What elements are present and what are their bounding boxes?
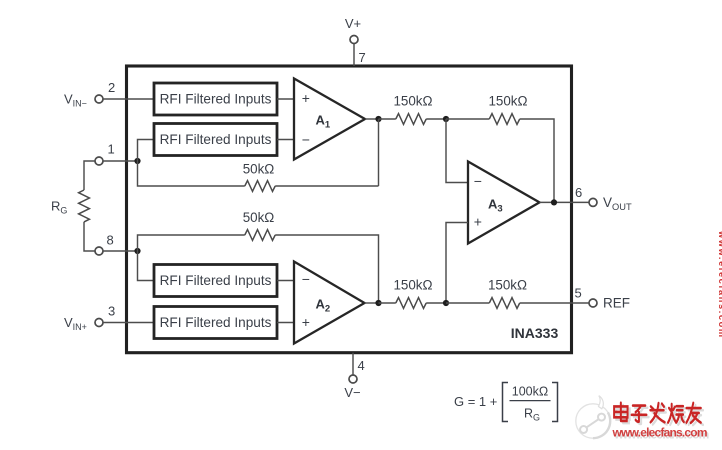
wire N1 to 150k R1 [379,118,396,120]
wire A3 plus to node N4 [446,223,468,304]
node G2 junction [134,248,140,254]
svg-text:6: 6 [575,185,582,200]
svg-text:8: 8 [107,233,114,248]
svg-text:5: 5 [575,286,582,301]
wire N2 to 150k R3 [379,302,396,304]
pin 2 terminal [95,95,103,103]
wire R4 to pin5 [520,302,590,304]
wire RFI3 to A2 minus [277,280,294,282]
resistor 150k R2 [489,114,519,125]
wire node G1 to RFI filter 2 input [138,140,156,162]
wire A3 output [540,201,590,203]
wire RFI2 to A1 minus [277,139,294,141]
svg-text:REF: REF [603,296,630,311]
wire pin8 to node G2 [103,250,138,252]
resistor 150k R1 [396,114,426,125]
svg-text:−: − [302,271,310,287]
svg-text:V+: V+ [345,16,361,31]
svg-text:100kΩ: 100kΩ [512,385,548,399]
resistor 150k R4 [489,298,519,309]
wire pin2 to RFI filter 1 [103,98,155,100]
svg-text:RFI Filtered Inputs: RFI Filtered Inputs [160,315,272,330]
RFI filter block 3 [154,265,277,297]
pin 5 terminal [589,299,597,307]
svg-text:50kΩ: 50kΩ [243,210,275,225]
node N1 junction [375,116,381,122]
svg-text:150kΩ: 150kΩ [488,278,527,293]
node N4 junction [443,300,449,306]
wire V- pin4 stub [352,353,354,375]
svg-text:−: − [474,173,482,189]
node N5 junction [551,199,557,205]
svg-text:G = 1 +: G = 1 + [454,394,497,409]
wire pin3 to RFI filter 4 [103,322,155,324]
node N2 junction [375,300,381,306]
svg-text:4: 4 [358,358,365,373]
pin 3 terminal [95,319,103,327]
pin 7 terminal [350,36,358,44]
svg-text:150kΩ: 150kΩ [393,94,432,109]
op-amp A2 [294,262,365,344]
resistor 50k feedback A2 [245,230,275,241]
svg-text:RFI Filtered Inputs: RFI Filtered Inputs [160,132,272,147]
svg-text:2: 2 [108,80,115,95]
wire N4 to 150k R4 [446,302,489,304]
watermark text 电子发烧友 (red) [614,403,701,423]
svg-text:www.elecfans.com: www.elecfans.com [612,426,708,440]
wire N3 to A3 minus [446,119,468,183]
svg-text:−: − [302,131,310,147]
pin 6 terminal [589,198,597,206]
svg-text:INA333: INA333 [511,325,559,341]
pin 1 terminal [95,157,103,165]
IC outline box INA333 [127,66,572,353]
op-amp A3 [468,162,540,244]
svg-text:V−: V− [344,385,360,400]
svg-text:RFI Filtered Inputs: RFI Filtered Inputs [160,273,272,288]
wire RFI1 to A1 plus [277,98,294,100]
wire 50k feedback A2 run [138,235,245,251]
RFI filter block 4 [154,307,277,339]
wire R3 to node N4 [426,302,446,304]
wire V+ pin7 stub [353,44,355,67]
svg-text:+: + [302,90,310,106]
wire N3 to 150k R2 [446,118,489,120]
wire pin1 to RG top [84,161,95,190]
svg-text:+: + [302,314,310,330]
svg-text:150kΩ: 150kΩ [393,278,432,293]
watermark logo circle (elecfans) [576,396,610,439]
node G1 junction [134,158,140,164]
wire 50k feedback A1 run [275,185,378,187]
wire A1 output to node N1 [365,118,379,120]
wire pin1 to node G1 [103,160,138,162]
svg-text:3: 3 [108,304,115,319]
node N3 junction [443,116,449,122]
wire A1 feedback vertical [378,119,380,186]
gain equation G = 1 + [100k/RG] [454,383,558,423]
resistor RG [79,190,90,222]
resistor 50k feedback A1 [245,181,275,192]
RFI filter block 1 [154,83,277,115]
svg-text:7: 7 [359,50,366,65]
svg-text:+: + [474,214,482,230]
RFI filter block 2 [154,124,277,156]
pin 4 terminal [349,375,357,383]
wire RG bottom to pin8 [84,222,95,251]
wire A2 output to node N2 [365,302,379,304]
watermark text shadow 电子发烧友 [616,405,703,425]
pin 8 terminal [95,247,103,255]
wire R2 down to A3 output node [520,119,554,202]
wire R1 to node N3 [426,118,446,120]
resistor 150k R3 [396,298,426,309]
svg-text:1: 1 [108,142,115,157]
op-amp A1 [294,79,365,160]
svg-text:www.elecfans.com: www.elecfans.com [717,230,722,337]
svg-text:RFI Filtered Inputs: RFI Filtered Inputs [160,92,272,107]
svg-text:50kΩ: 50kΩ [243,162,275,177]
wire node G2 to RFI filter 3 input [138,251,156,281]
wire RFI4 to A2 plus [277,322,294,324]
svg-text:150kΩ: 150kΩ [488,94,527,109]
